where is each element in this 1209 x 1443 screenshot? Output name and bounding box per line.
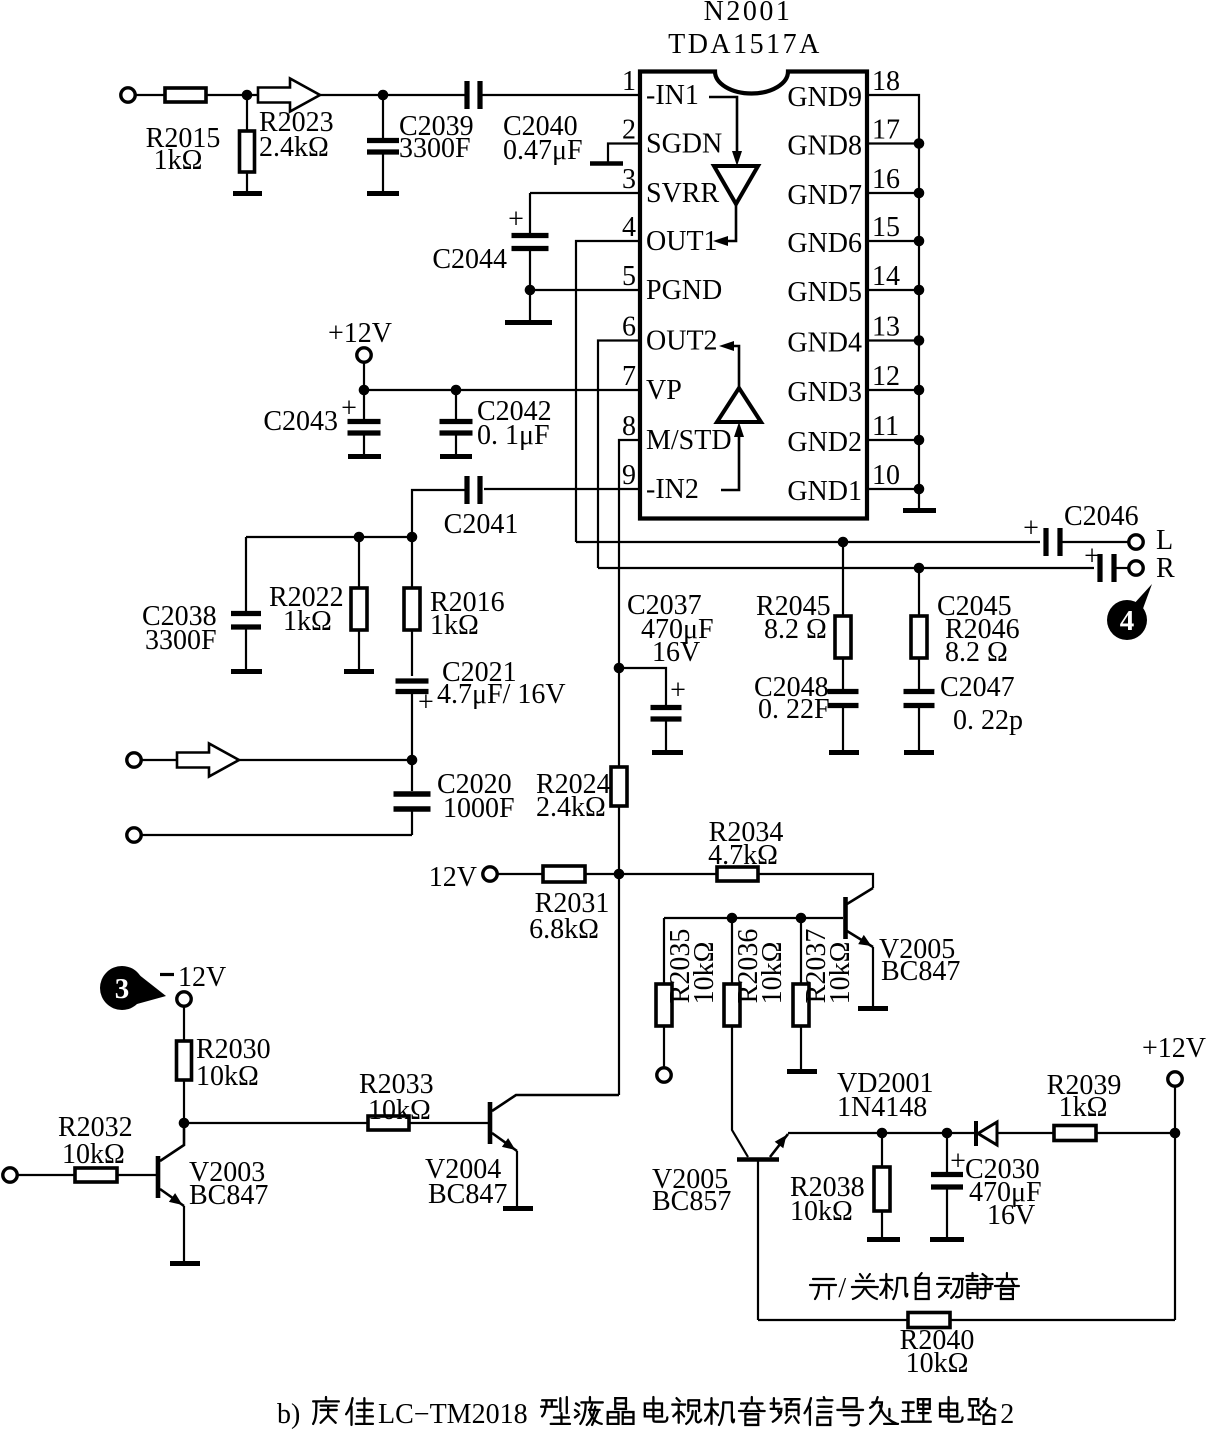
junction C2042 top <box>451 385 462 396</box>
resistor R2015 <box>165 88 206 102</box>
junction R2046 tap on R line <box>914 563 925 574</box>
svg-text:3300F: 3300F <box>145 625 217 656</box>
ground under V2004 <box>503 1206 533 1211</box>
wire C2048 to ground <box>842 707 844 750</box>
svg-text:N2001: N2001 <box>704 0 793 27</box>
resistor R2037 <box>793 984 809 1026</box>
wire pin 10 to GND bus <box>867 488 919 490</box>
wire R output line <box>598 567 1094 569</box>
svg-text:SGDN: SGDN <box>646 129 722 160</box>
svg-text:1kΩ: 1kΩ <box>283 606 332 637</box>
svg-text:10kΩ: 10kΩ <box>790 1196 853 1227</box>
svg-text:4.7kΩ: 4.7kΩ <box>708 840 778 871</box>
junction V2003 collector node <box>179 1118 190 1129</box>
ground under C2030 <box>930 1237 964 1242</box>
junction R2022 top <box>354 532 365 543</box>
svg-text:15: 15 <box>872 212 900 243</box>
ground for GND bus <box>903 508 936 513</box>
wire pin 14 to GND bus <box>867 289 919 291</box>
junction node at C2039 top <box>378 90 389 101</box>
wire R2039 to +12V node <box>1096 1132 1175 1134</box>
transistor V2005 BC847 (NPN) <box>846 888 874 947</box>
capacitor C2041 <box>467 476 480 504</box>
wire down to R2037 <box>800 918 802 984</box>
svg-text:7: 7 <box>622 361 636 392</box>
wire V2004 emitter to ground <box>516 1151 518 1206</box>
wire pin 8 M/STD down <box>619 440 640 668</box>
svg-text:1: 1 <box>622 66 636 97</box>
input terminal (bottom left) <box>3 1168 17 1182</box>
wire to R2038 <box>881 1133 883 1167</box>
svg-text:16: 16 <box>872 164 900 195</box>
svg-text:12V: 12V <box>429 862 477 893</box>
svg-text:BC847: BC847 <box>428 1179 507 1210</box>
svg-text:+: + <box>1023 513 1039 544</box>
resistor R2032 <box>75 1168 117 1182</box>
wire 12V node down to V2004 collector <box>618 874 620 1095</box>
svg-text:C2043: C2043 <box>263 406 338 437</box>
wire C2046 to L terminal <box>1062 541 1129 543</box>
junction R2016 top <box>407 532 418 543</box>
resistor R2022 <box>351 588 367 630</box>
junction node at R2023 top <box>242 90 253 101</box>
wire R2016 to C2021 <box>411 630 413 676</box>
svg-text:L: L <box>1156 525 1173 556</box>
svg-text:11: 11 <box>872 411 899 442</box>
emitter arrow V2005 BC857 <box>775 1135 787 1148</box>
svg-text:10kΩ: 10kΩ <box>62 1139 125 1170</box>
wire C2041 left then down <box>412 490 465 537</box>
ground under V2005 emitter <box>858 1006 888 1011</box>
wire R2035 to terminal <box>663 1026 665 1068</box>
wire to C2030 <box>946 1133 948 1172</box>
wire C2030 to ground <box>946 1189 948 1237</box>
ground under C2037 <box>652 750 683 755</box>
svg-text:-IN1: -IN1 <box>646 80 699 111</box>
wire down to C2044 <box>529 193 531 233</box>
ground under R2038 <box>867 1237 900 1242</box>
wire R2031 to R2034 <box>585 873 717 875</box>
svg-text:+: + <box>418 687 434 718</box>
svg-text:GND1: GND1 <box>787 476 862 507</box>
capacitor C2037 <box>651 708 682 720</box>
svg-text:3: 3 <box>115 973 130 1005</box>
wire C2040 to pin 1 <box>482 94 640 96</box>
svg-text:12: 12 <box>872 361 900 392</box>
svg-text:1kΩ: 1kΩ <box>1059 1092 1108 1123</box>
wire R2024 to 12V node <box>618 806 620 874</box>
resistor R2023 <box>240 131 255 172</box>
terminal +12V (right) <box>1168 1072 1182 1086</box>
transistor V2003 BC847 (NPN) <box>158 1123 184 1206</box>
wire V2005 emitter to ground <box>872 947 874 1006</box>
junction pin 17 on GND bus <box>914 138 925 149</box>
caption: b) 康佳LC-TM2018型液晶电视机音频信号处理电路2 <box>277 1397 1014 1430</box>
wire down to C2038 <box>245 537 247 611</box>
wire GND bus from pin 18 down right side <box>867 95 919 508</box>
svg-text:PGND: PGND <box>646 275 722 306</box>
ground under C2043 <box>348 454 381 459</box>
svg-text:+12V: +12V <box>1142 1033 1206 1064</box>
wire pin 5 PGND left <box>530 289 640 291</box>
wire node bus C2038/R2022/R2016 <box>246 536 412 538</box>
junction R2045 tap on L line <box>838 537 849 548</box>
wire pin 17 to GND bus <box>867 142 919 144</box>
svg-text:16V: 16V <box>987 1200 1035 1231</box>
junction +12V node <box>1170 1128 1181 1139</box>
svg-text:14: 14 <box>872 261 900 292</box>
svg-text:13: 13 <box>872 312 900 343</box>
junction R2037 top <box>796 913 807 924</box>
svg-text:GND3: GND3 <box>787 377 862 408</box>
junction C2030 top <box>942 1128 953 1139</box>
text label 开/关机自动静音 (power on/off auto mute) <box>810 1273 1019 1304</box>
svg-text:1000F: 1000F <box>443 793 515 824</box>
wire R2046 to C2047 <box>918 658 920 689</box>
transistor V2005 BC857 (PNP) <box>737 1134 788 1160</box>
wire C2020 to lower input wire <box>411 811 413 835</box>
wire R2045 to C2048 <box>842 658 844 689</box>
svg-text:/: / <box>838 1273 846 1304</box>
wire diode to R2039 <box>997 1132 1054 1134</box>
svg-text:16V: 16V <box>652 637 700 668</box>
ground bar at SGDN <box>590 161 623 166</box>
wire pin 13 to GND bus <box>867 339 919 341</box>
wire input to V2003 base <box>17 1174 158 1176</box>
capacitor C2040 <box>467 81 480 109</box>
ground under C2038 <box>231 669 262 674</box>
wire V2005 BC857 down to mute loop <box>757 1160 759 1320</box>
wire down to R2036 <box>731 918 733 984</box>
wire L line to R2045 <box>842 542 844 616</box>
svg-text:2.4kΩ: 2.4kΩ <box>536 792 606 823</box>
svg-text:10kΩ: 10kΩ <box>757 942 788 1005</box>
capacitor C2046 (L) <box>1046 528 1060 556</box>
ground under C2044 <box>505 320 552 325</box>
wire lower input to C2020 <box>141 834 412 836</box>
wire R2022 to ground <box>358 630 360 669</box>
svg-text:10kΩ: 10kΩ <box>906 1348 969 1379</box>
ground under C2048 <box>829 750 859 755</box>
wire C2039 to ground <box>382 154 384 192</box>
signal-flow arrow (second input) <box>177 744 239 777</box>
svg-text:OUT1: OUT1 <box>646 226 718 257</box>
wire down to R2016 <box>411 537 413 588</box>
svg-text:6.8kΩ: 6.8kΩ <box>529 914 599 945</box>
svg-text:C2047: C2047 <box>940 672 1015 703</box>
terminal -12V <box>177 992 191 1006</box>
input terminal (middle left) <box>127 753 141 767</box>
wire down to R2035 <box>663 918 665 984</box>
svg-text:0. 22p: 0. 22p <box>953 705 1023 736</box>
wire junction to C2039 <box>382 95 384 138</box>
junction pin 13 on GND bus <box>914 335 925 346</box>
wire C2047 to ground <box>918 707 920 750</box>
wire pin 9 -IN2 to C2041 <box>484 488 640 490</box>
svg-text:18: 18 <box>872 66 900 97</box>
resistor R2040 <box>908 1313 950 1328</box>
capacitor (R output coupling) <box>1100 554 1114 582</box>
emitter arrow V2003 <box>169 1193 183 1205</box>
svg-text:8.2 Ω: 8.2 Ω <box>945 637 1008 668</box>
svg-text:0.47μF: 0.47μF <box>503 135 583 166</box>
wire to C2043 <box>363 390 365 419</box>
wire mid input to node <box>141 759 412 761</box>
input terminal (lower left) <box>127 828 141 842</box>
svg-text:C2041: C2041 <box>444 509 519 540</box>
terminal R output <box>1129 561 1143 575</box>
wire C2021 to node <box>411 694 413 760</box>
svg-text:5: 5 <box>622 261 636 292</box>
svg-text:-IN2: -IN2 <box>646 474 699 505</box>
junction C2044/PGND <box>525 285 536 296</box>
ground under R2022 <box>344 669 374 674</box>
wire +12V to pin 7 VP <box>364 389 640 391</box>
svg-text:3: 3 <box>622 164 636 195</box>
signal-flow arrow (left channel input) <box>258 79 320 112</box>
wire 12V to R2031 <box>497 873 543 875</box>
svg-text:10kΩ: 10kΩ <box>689 942 720 1005</box>
ground under C2042 <box>440 454 472 459</box>
node marker balloon 4 <box>1107 584 1152 640</box>
wire C2042 to ground <box>455 435 457 454</box>
wire L output line <box>576 541 1040 543</box>
svg-text:4: 4 <box>622 212 636 243</box>
junction pin 15 on GND bus <box>914 236 925 247</box>
capacitor C2042 <box>440 422 473 434</box>
node marker balloon 3 <box>100 966 166 1010</box>
svg-text:TDA1517A: TDA1517A <box>668 29 822 60</box>
wire +12V terminal to node <box>1174 1086 1176 1133</box>
svg-text:+: + <box>670 675 686 706</box>
junction pin 14 on GND bus <box>914 285 925 296</box>
svg-text:4: 4 <box>1120 605 1135 637</box>
wire R2036 to V2005 BC857 collector <box>732 1026 748 1157</box>
wire cap to R terminal <box>1116 567 1129 569</box>
svg-text:BC857: BC857 <box>652 1186 731 1217</box>
wire node down to R2040 loop <box>1174 1133 1176 1320</box>
capacitor C2038 <box>231 614 261 628</box>
capacitor C2039 <box>367 141 399 153</box>
wire pin 6 OUT2 down to R output line <box>598 341 640 569</box>
svg-text:0. 22F: 0. 22F <box>758 694 830 725</box>
capacitor C2048 <box>828 692 859 706</box>
svg-text:BC847: BC847 <box>881 956 960 987</box>
wire R2038 to ground <box>881 1211 883 1237</box>
capacitor C2021 <box>396 681 429 692</box>
junction C2043 top <box>359 385 370 396</box>
junction pin 10 on GND bus <box>914 484 925 495</box>
wire node to R2033 <box>184 1122 368 1124</box>
transistor V2004 BC847 (NPN) <box>490 1095 619 1151</box>
svg-text:BC847: BC847 <box>189 1180 268 1211</box>
svg-text:VP: VP <box>646 375 682 406</box>
svg-text:0. 1μF: 0. 1μF <box>477 420 550 451</box>
wire pin 12 to GND bus <box>867 389 919 391</box>
wire R2015 to C2040 <box>206 94 465 96</box>
wire R2033 to V2004 base <box>409 1122 490 1124</box>
svg-text:4.7μF/ 16V: 4.7μF/ 16V <box>437 679 566 710</box>
wire V2005 base bus <box>664 917 843 919</box>
svg-text:1kΩ: 1kΩ <box>430 610 479 641</box>
ground under R2037 <box>787 1069 817 1074</box>
svg-text:1kΩ: 1kΩ <box>154 145 203 176</box>
svg-text:b): b) <box>277 1399 300 1430</box>
internal amplifier A2 (triangle pointing up) with input/output arrows <box>717 341 761 490</box>
svg-text:+12V: +12V <box>328 318 392 349</box>
svg-text:8.2 Ω: 8.2 Ω <box>764 614 827 645</box>
resistor R2016 <box>404 588 420 630</box>
svg-text:17: 17 <box>872 115 900 146</box>
svg-text:C2046: C2046 <box>1064 501 1139 532</box>
resistor R2036 <box>724 984 740 1026</box>
wire R2030 to V2003 collector node <box>183 1080 185 1123</box>
svg-text:12V: 12V <box>178 962 226 993</box>
svg-text:2: 2 <box>1000 1399 1014 1430</box>
resistor R2039 <box>1054 1126 1096 1141</box>
svg-text:GND7: GND7 <box>787 180 862 211</box>
svg-text:LC−TM2018: LC−TM2018 <box>378 1399 528 1430</box>
resistor R2024 <box>611 767 627 806</box>
svg-text:2.4kΩ: 2.4kΩ <box>259 132 329 163</box>
resistor R2046 <box>911 616 927 658</box>
terminal +12V (top) <box>357 348 371 362</box>
svg-text:R: R <box>1156 553 1175 584</box>
resistor R2035 <box>656 984 672 1026</box>
svg-text:1N4148: 1N4148 <box>837 1092 927 1123</box>
capacitor C2030 <box>931 1175 963 1188</box>
svg-text:10kΩ: 10kΩ <box>825 942 856 1005</box>
resistor R2038 <box>874 1167 890 1211</box>
wire -12V to R2030 <box>183 1006 185 1041</box>
wire R2037 to ground <box>800 1026 802 1069</box>
wire C2038 to ground <box>245 629 247 669</box>
svg-text:GND2: GND2 <box>787 427 862 458</box>
svg-text:GND5: GND5 <box>787 277 862 308</box>
svg-text:GND6: GND6 <box>787 228 862 259</box>
wire node to C2020 <box>411 761 413 791</box>
svg-text:GND9: GND9 <box>787 82 862 113</box>
svg-text:6: 6 <box>622 312 636 343</box>
resistor R2031 <box>543 866 585 882</box>
wire pin 16 to GND bus <box>867 192 919 194</box>
junction 12V/R2024/V2004 node <box>614 869 625 880</box>
svg-text:3300F: 3300F <box>399 133 471 164</box>
resistor R2034 <box>717 867 758 881</box>
terminal 12V <box>483 867 497 881</box>
junction R2036 top <box>727 913 738 924</box>
wire pin 4 OUT1 down to L output line <box>576 241 640 542</box>
wire R2040 to +12V node <box>950 1319 1175 1321</box>
junction pin 11 on GND bus <box>914 435 925 446</box>
ground under V2003 <box>170 1261 200 1266</box>
resistor R2033 <box>368 1116 409 1130</box>
wire pin 3 SVRR left <box>530 192 640 194</box>
svg-text:2: 2 <box>622 115 636 146</box>
wire pin 15 to GND bus <box>867 240 919 242</box>
diode VD2001 1N4148 <box>976 1121 997 1146</box>
terminal L output <box>1129 535 1143 549</box>
capacitor C2043 <box>348 422 381 434</box>
capacitor C2020 <box>394 794 431 809</box>
wire pin 11 to GND bus <box>867 439 919 441</box>
net label -12V <box>160 973 174 976</box>
resistor R2045 <box>835 616 851 658</box>
svg-text:10: 10 <box>872 460 900 491</box>
wire V2003 emitter to ground <box>183 1206 185 1261</box>
terminal below R2035 <box>657 1068 671 1082</box>
wire to C2042 <box>455 390 457 419</box>
svg-text:M/STD: M/STD <box>646 425 732 456</box>
svg-text:10kΩ: 10kΩ <box>196 1061 259 1092</box>
junction mid input node <box>407 755 418 766</box>
wire pin 2 SGDN to ground bar <box>608 144 640 163</box>
svg-text:10kΩ: 10kΩ <box>368 1095 431 1126</box>
ground under C2047 <box>904 750 934 755</box>
svg-text:9: 9 <box>622 460 636 491</box>
wire R line to R2046 <box>918 568 920 616</box>
wire +12V terminal down <box>363 362 365 390</box>
wire C2044 to ground <box>529 251 531 320</box>
wire R2034 to V2005 collector <box>758 874 873 888</box>
emitter arrow V2004 <box>502 1138 516 1150</box>
wire BC857 collector to R2040 <box>758 1319 908 1321</box>
wire to C2037 <box>619 668 666 705</box>
wire junction to R2023 <box>246 95 248 131</box>
svg-text:GND8: GND8 <box>787 131 862 162</box>
wire down to R2022 <box>358 537 360 588</box>
wire C2043 to ground <box>363 435 365 454</box>
wire mute control line <box>788 1132 974 1134</box>
ground under R2023 <box>233 191 262 196</box>
svg-text:8: 8 <box>622 411 636 442</box>
emitter arrow V2005 <box>858 935 871 946</box>
junction pin 12 on GND bus <box>914 385 925 396</box>
svg-text:OUT2: OUT2 <box>646 326 718 357</box>
internal amplifier A1 (triangle pointing down) with input/output arrows <box>709 97 758 246</box>
wire input to R2015 <box>135 94 165 96</box>
ground under C2039 <box>367 191 399 196</box>
capacitor C2044 <box>512 236 549 249</box>
svg-text:C2044: C2044 <box>432 244 507 275</box>
svg-text:GND4: GND4 <box>787 328 862 359</box>
junction R2038 top <box>877 1128 888 1139</box>
resistor R2030 <box>177 1041 192 1080</box>
capacitor C2047 <box>904 692 935 706</box>
input terminal (top left) <box>121 88 135 102</box>
wire junction to R2024 <box>618 668 620 767</box>
op-amp IC N2001 TDA1517A body outline with pin-1 notch <box>640 72 867 519</box>
wire C2037 to ground <box>665 721 667 750</box>
junction C2037 tap <box>614 663 625 674</box>
svg-text:+: + <box>508 204 524 235</box>
junction pin 16 on GND bus <box>914 188 925 199</box>
svg-text:SVRR: SVRR <box>646 178 719 209</box>
wire R2023 to ground <box>246 172 248 192</box>
